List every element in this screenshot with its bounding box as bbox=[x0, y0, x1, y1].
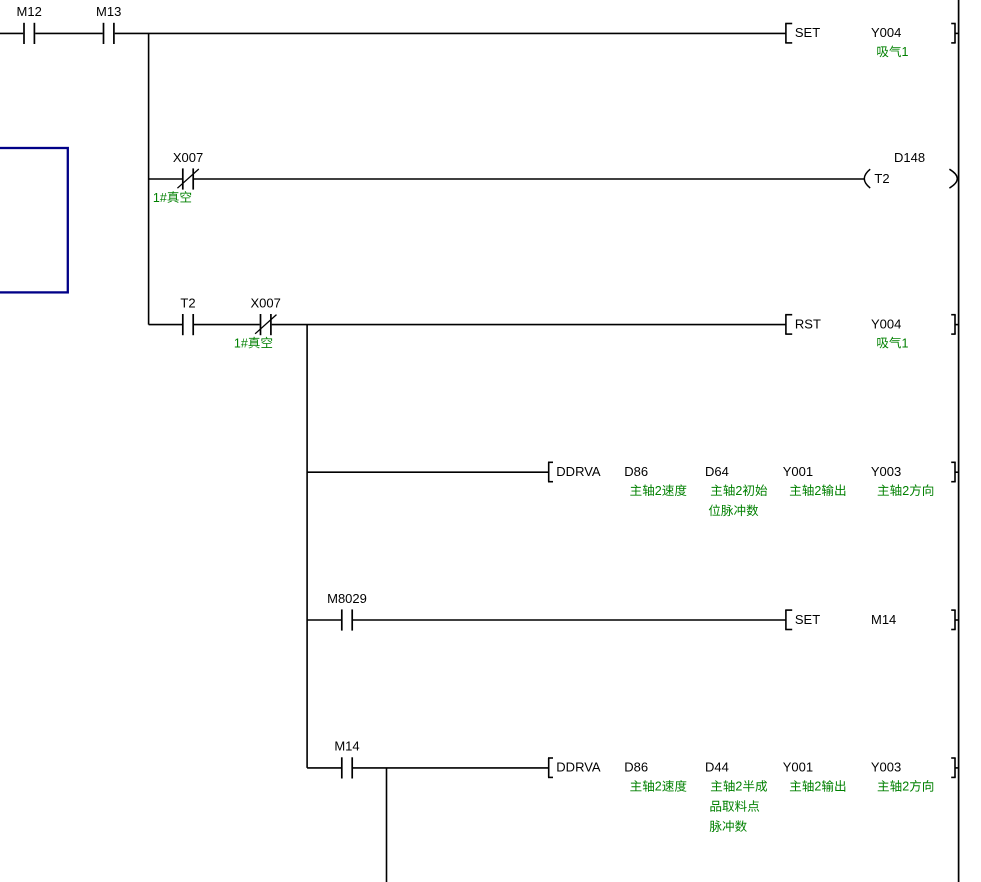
svg-text:2: 2 bbox=[735, 780, 742, 794]
svg-text:1: 1 bbox=[902, 336, 909, 350]
svg-text:2: 2 bbox=[814, 780, 821, 794]
svg-text:2: 2 bbox=[814, 484, 821, 498]
svg-text:2: 2 bbox=[655, 484, 662, 498]
svg-text:2: 2 bbox=[902, 780, 909, 794]
svg-text:D86: D86 bbox=[624, 760, 648, 775]
svg-text:RST: RST bbox=[795, 316, 821, 331]
svg-text:Y003: Y003 bbox=[871, 760, 901, 775]
svg-text:M8029: M8029 bbox=[327, 591, 367, 606]
svg-text:D86: D86 bbox=[624, 464, 648, 479]
svg-text:1: 1 bbox=[902, 45, 909, 59]
svg-text:M13: M13 bbox=[96, 4, 121, 19]
svg-text:X007: X007 bbox=[251, 295, 281, 310]
svg-text:SET: SET bbox=[795, 25, 820, 40]
svg-text:DDRVA: DDRVA bbox=[556, 464, 601, 479]
svg-text:D64: D64 bbox=[705, 464, 729, 479]
svg-text:2: 2 bbox=[655, 780, 662, 794]
svg-text:1#: 1# bbox=[234, 336, 248, 350]
svg-text:Y004: Y004 bbox=[871, 25, 901, 40]
svg-text:M14: M14 bbox=[871, 612, 896, 627]
svg-text:DDRVA: DDRVA bbox=[556, 760, 601, 775]
svg-text:SET: SET bbox=[795, 612, 820, 627]
svg-text:Y004: Y004 bbox=[871, 316, 901, 331]
svg-text:X007: X007 bbox=[173, 150, 203, 165]
svg-text:D44: D44 bbox=[705, 760, 729, 775]
svg-text:T2: T2 bbox=[874, 171, 889, 186]
svg-text:Y003: Y003 bbox=[871, 464, 901, 479]
svg-text:2: 2 bbox=[735, 484, 742, 498]
svg-text:Y001: Y001 bbox=[783, 760, 813, 775]
svg-text:M12: M12 bbox=[17, 4, 42, 19]
svg-text:Y001: Y001 bbox=[783, 464, 813, 479]
svg-text:1#: 1# bbox=[153, 191, 167, 205]
svg-text:D148: D148 bbox=[894, 150, 925, 165]
svg-text:M14: M14 bbox=[334, 739, 359, 754]
svg-text:2: 2 bbox=[902, 484, 909, 498]
svg-text:T2: T2 bbox=[180, 295, 195, 310]
